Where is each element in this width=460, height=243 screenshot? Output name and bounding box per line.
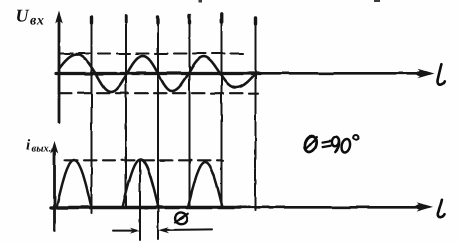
svg-text:U: U bbox=[15, 6, 29, 26]
svg-text:вх: вх bbox=[30, 14, 45, 29]
svg-text:вых.: вых. bbox=[31, 144, 51, 155]
